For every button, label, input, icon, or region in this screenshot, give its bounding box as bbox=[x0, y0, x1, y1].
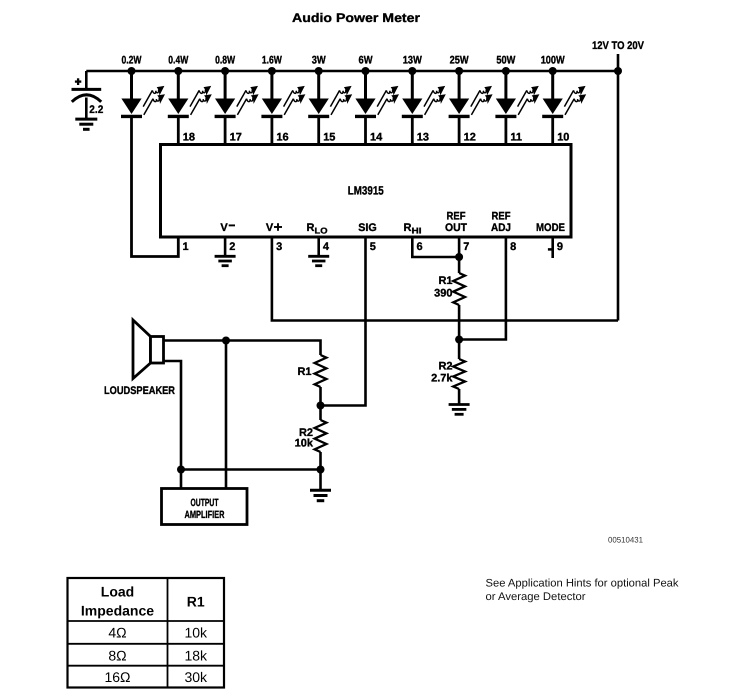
svg-text:11: 11 bbox=[510, 132, 522, 144]
svg-text:16Ω: 16Ω bbox=[104, 669, 130, 685]
svg-text:15: 15 bbox=[323, 132, 335, 144]
svg-text:10k: 10k bbox=[184, 625, 208, 641]
svg-text:9: 9 bbox=[557, 241, 563, 253]
svg-text:8Ω: 8Ω bbox=[108, 647, 126, 663]
svg-text:10k: 10k bbox=[295, 438, 314, 450]
svg-text:4: 4 bbox=[323, 241, 330, 253]
svg-text:7: 7 bbox=[463, 241, 469, 253]
svg-text:6: 6 bbox=[417, 241, 423, 253]
svg-text:12V TO 20V: 12V TO 20V bbox=[592, 40, 645, 52]
svg-text:2: 2 bbox=[229, 241, 235, 253]
svg-text:SIG: SIG bbox=[358, 222, 377, 234]
svg-text:V: V bbox=[220, 222, 228, 234]
svg-text:HI: HI bbox=[412, 226, 422, 236]
svg-text:30k: 30k bbox=[184, 669, 208, 685]
svg-text:V: V bbox=[266, 222, 274, 234]
svg-text:LOUDSPEAKER: LOUDSPEAKER bbox=[104, 385, 175, 397]
svg-text:Impedance: Impedance bbox=[81, 603, 154, 619]
svg-text:Load: Load bbox=[101, 584, 134, 600]
svg-text:1: 1 bbox=[183, 241, 189, 253]
svg-text:5: 5 bbox=[370, 241, 376, 253]
svg-text:00510431: 00510431 bbox=[608, 536, 644, 545]
svg-text:16: 16 bbox=[276, 132, 288, 144]
svg-text:R: R bbox=[404, 222, 412, 234]
svg-text:or Average Detector: or Average Detector bbox=[486, 591, 586, 603]
svg-text:4Ω: 4Ω bbox=[108, 625, 126, 641]
svg-text:13W: 13W bbox=[403, 55, 423, 67]
svg-text:MODE: MODE bbox=[536, 222, 565, 234]
svg-text:2.7k: 2.7k bbox=[431, 373, 453, 385]
svg-text:12: 12 bbox=[464, 132, 476, 144]
svg-text:R1: R1 bbox=[297, 366, 311, 378]
svg-text:6W: 6W bbox=[359, 55, 374, 67]
svg-text:OUT: OUT bbox=[445, 222, 467, 234]
svg-text:See Application Hints for opti: See Application Hints for optional Peak bbox=[486, 578, 680, 590]
svg-text:REF: REF bbox=[492, 211, 511, 223]
svg-text:50W: 50W bbox=[496, 55, 516, 67]
svg-text:ADJ: ADJ bbox=[491, 222, 511, 234]
svg-text:0.4W: 0.4W bbox=[168, 55, 188, 67]
svg-text:8: 8 bbox=[510, 241, 516, 253]
svg-text:14: 14 bbox=[370, 132, 383, 144]
svg-text:18: 18 bbox=[183, 132, 195, 144]
svg-text:0.2W: 0.2W bbox=[122, 55, 142, 67]
svg-text:17: 17 bbox=[230, 132, 242, 144]
svg-text:0.8W: 0.8W bbox=[215, 55, 235, 67]
svg-text:13: 13 bbox=[417, 132, 429, 144]
svg-text:LM3915: LM3915 bbox=[348, 184, 384, 198]
svg-text:1.6W: 1.6W bbox=[262, 55, 282, 67]
svg-text:2.2: 2.2 bbox=[89, 104, 103, 116]
svg-text:390: 390 bbox=[434, 288, 452, 300]
svg-text:R1: R1 bbox=[187, 594, 205, 610]
svg-text:3W: 3W bbox=[312, 55, 327, 67]
svg-text:AMPLIFIER: AMPLIFIER bbox=[185, 509, 225, 521]
svg-text:R1: R1 bbox=[438, 275, 452, 287]
svg-text:10: 10 bbox=[557, 132, 569, 144]
svg-text:REF: REF bbox=[447, 211, 466, 223]
svg-text:OUTPUT: OUTPUT bbox=[191, 497, 219, 509]
svg-text:3: 3 bbox=[276, 241, 282, 253]
svg-text:25W: 25W bbox=[450, 55, 470, 67]
svg-text:18k: 18k bbox=[184, 647, 208, 663]
svg-text:Audio Power Meter: Audio Power Meter bbox=[292, 11, 420, 25]
svg-text:R2: R2 bbox=[438, 361, 452, 373]
svg-text:100W: 100W bbox=[541, 55, 566, 67]
svg-text:LO: LO bbox=[315, 226, 328, 236]
svg-text:R: R bbox=[307, 222, 315, 234]
